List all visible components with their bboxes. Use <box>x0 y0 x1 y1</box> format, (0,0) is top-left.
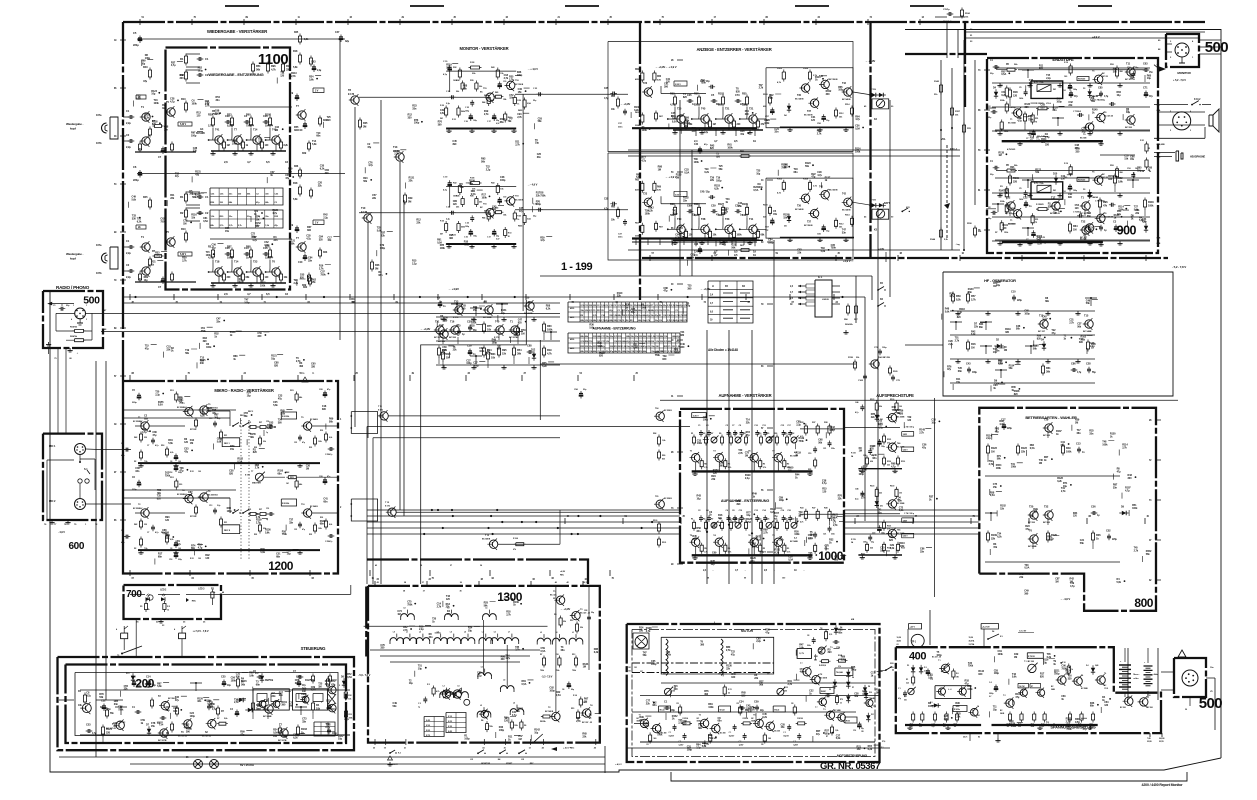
svg-text:1: 1 <box>86 305 87 307</box>
svg-text:C 1: C 1 <box>783 732 786 734</box>
svg-text:→ -4,9 V: → -4,9 V <box>1060 597 1070 601</box>
svg-text:100k: 100k <box>206 254 212 257</box>
svg-text:4,7µ: 4,7µ <box>306 238 311 241</box>
svg-text:47µ: 47µ <box>184 450 189 453</box>
svg-text:BC 558 B: BC 558 B <box>515 84 524 86</box>
svg-text:100p: 100p <box>492 341 498 344</box>
svg-text:VOLL: VOLL <box>1046 103 1052 105</box>
svg-text:L9: L9 <box>458 686 460 688</box>
svg-text:1: 1 <box>73 305 74 307</box>
svg-text:220µ: 220µ <box>1112 539 1118 541</box>
svg-text:47µ: 47µ <box>175 175 180 178</box>
svg-text:4,7µ: 4,7µ <box>155 444 158 447</box>
svg-text:750k: 750k <box>1061 667 1067 670</box>
svg-text:1M: 1M <box>583 666 586 669</box>
svg-text:2,7k: 2,7k <box>205 105 210 108</box>
svg-text:2200µ: 2200µ <box>989 693 993 695</box>
svg-text:R 43/22,4: R 43/22,4 <box>819 664 826 667</box>
svg-text:BC 327-25: BC 327-25 <box>1104 116 1114 118</box>
svg-text:4,7µ: 4,7µ <box>86 695 91 698</box>
svg-text:→: → <box>744 569 746 572</box>
svg-text:15k: 15k <box>265 256 270 260</box>
svg-text:L905 B: L905 B <box>822 299 829 301</box>
svg-text:624: 624 <box>870 546 873 549</box>
svg-text:2,7k: 2,7k <box>763 531 768 534</box>
svg-text:68n: 68n <box>968 291 973 294</box>
svg-text:330p: 330p <box>1119 230 1125 232</box>
svg-text:T 3 / BC 369: T 3 / BC 369 <box>1024 661 1034 663</box>
svg-text:C28: C28 <box>584 610 587 612</box>
svg-text:ANZEIGE - ENTZERRER - VERSTÄRK: ANZEIGE - ENTZERRER - VERSTÄRKER <box>696 47 771 52</box>
svg-text:4,7µ: 4,7µ <box>855 411 858 414</box>
svg-text:R45: R45 <box>495 91 498 94</box>
svg-text:100k: 100k <box>899 545 905 548</box>
svg-text:750k: 750k <box>968 665 974 668</box>
svg-text:2,2µ: 2,2µ <box>323 216 328 219</box>
svg-text:T23: T23 <box>643 192 648 195</box>
svg-text:10µ: 10µ <box>746 514 751 517</box>
svg-text:T 10: T 10 <box>1147 695 1151 697</box>
svg-text:68n: 68n <box>250 436 255 439</box>
svg-text:0,25: 0,25 <box>919 726 922 728</box>
svg-text:150µ: 150µ <box>881 446 885 448</box>
svg-text:0,5A: 0,5A <box>990 494 995 497</box>
svg-text:C30: C30 <box>503 197 506 199</box>
svg-text:68n: 68n <box>323 501 328 504</box>
svg-text:R16: R16 <box>971 342 976 346</box>
svg-text:C10: C10 <box>1011 290 1016 294</box>
svg-text:100k: 100k <box>694 161 700 164</box>
svg-text:33n: 33n <box>429 636 434 639</box>
svg-text:1000: 1000 <box>818 549 844 563</box>
svg-text:22µ: 22µ <box>496 236 499 238</box>
svg-text:47µ: 47µ <box>447 613 452 616</box>
svg-text:BC 558 B: BC 558 B <box>664 410 672 412</box>
svg-text:BC 548B: BC 548B <box>1083 330 1092 333</box>
svg-text:4,7µ: 4,7µ <box>822 482 827 485</box>
svg-text:15k: 15k <box>502 351 507 355</box>
svg-text:BC 558 B: BC 558 B <box>829 189 838 191</box>
svg-text:→ +4,9V: → +4,9V <box>420 327 430 331</box>
svg-text:R98: R98 <box>653 433 656 435</box>
svg-text:BC 548 B: BC 548 B <box>310 505 318 508</box>
svg-text:33: 33 <box>728 692 730 694</box>
svg-text:L9: L9 <box>393 632 395 634</box>
svg-text:100p: 100p <box>191 135 197 138</box>
svg-text:C19: C19 <box>266 508 269 510</box>
svg-text:C8: C8 <box>807 635 809 637</box>
svg-text:+ 4,9 V REC: + 4,9 V REC <box>563 747 575 750</box>
svg-text:R57: R57 <box>971 294 976 298</box>
svg-text:4,7µ: 4,7µ <box>898 697 901 700</box>
svg-text:R42: R42 <box>134 436 137 439</box>
svg-text:R124: R124 <box>106 727 112 731</box>
svg-text:C10: C10 <box>298 129 303 132</box>
svg-text:2,7k: 2,7k <box>208 124 213 128</box>
svg-text:2,7k: 2,7k <box>517 116 522 119</box>
svg-text:8,2k: 8,2k <box>227 124 232 128</box>
svg-text:R55: R55 <box>742 92 747 96</box>
svg-text:R143: R143 <box>934 80 940 83</box>
svg-text:R15: R15 <box>571 708 574 710</box>
svg-text:R9/750k: R9/750k <box>265 680 274 682</box>
svg-text:5,6k: 5,6k <box>168 442 173 445</box>
svg-text:100p: 100p <box>808 537 814 540</box>
svg-text:107a: 107a <box>96 243 102 247</box>
svg-text:C88: C88 <box>527 344 532 348</box>
svg-text:68n: 68n <box>500 121 505 124</box>
svg-text:R2: R2 <box>134 548 136 550</box>
svg-text:2,2µ: 2,2µ <box>412 262 417 265</box>
svg-text:0,5A: 0,5A <box>788 559 793 562</box>
svg-text:750k: 750k <box>145 686 151 689</box>
svg-text:R 50: R 50 <box>517 216 521 218</box>
svg-text:47µ: 47µ <box>756 538 761 541</box>
svg-text:+4,9V: +4,9V <box>560 570 566 573</box>
svg-text:R7: R7 <box>540 654 542 656</box>
svg-text:T23: T23 <box>253 260 258 264</box>
svg-text:W 4,32: W 4,32 <box>774 709 779 712</box>
svg-text:10µ: 10µ <box>338 738 343 741</box>
svg-text:1k: 1k <box>1071 669 1073 671</box>
svg-text:0,5A: 0,5A <box>471 193 476 196</box>
svg-text:22µ: 22µ <box>871 541 874 543</box>
svg-text:68n: 68n <box>561 649 566 652</box>
svg-text:100p: 100p <box>859 473 865 476</box>
svg-text:T29: T29 <box>1044 418 1049 422</box>
svg-text:5,6k: 5,6k <box>890 547 895 550</box>
svg-text:10µ: 10µ <box>535 142 540 145</box>
svg-text:BC 548B: BC 548B <box>263 715 272 718</box>
svg-text:68n: 68n <box>1077 432 1082 435</box>
svg-text:33n: 33n <box>273 239 278 242</box>
svg-text:R3: R3 <box>703 433 705 435</box>
svg-text:100p: 100p <box>1054 673 1060 676</box>
svg-text:2,7k: 2,7k <box>1069 322 1074 325</box>
svg-text:2,2µ: 2,2µ <box>948 343 953 346</box>
svg-text:68n: 68n <box>794 171 799 174</box>
svg-text:R455: R455 <box>518 225 522 228</box>
svg-text:R125: R125 <box>887 439 891 441</box>
svg-text:6,2k: 6,2k <box>714 188 719 191</box>
svg-text:33n: 33n <box>216 99 221 102</box>
svg-text:100p: 100p <box>851 669 857 672</box>
svg-text:0,5A: 0,5A <box>273 732 278 735</box>
svg-text:BC 548B: BC 548B <box>790 540 798 543</box>
svg-text:100: 100 <box>198 558 201 560</box>
svg-text:0,5A: 0,5A <box>1075 721 1080 724</box>
svg-text:C 1: C 1 <box>729 732 732 734</box>
svg-text:4,75/1625: 4,75/1625 <box>1007 148 1016 151</box>
svg-text:5,6k: 5,6k <box>217 440 222 443</box>
svg-text:330: 330 <box>144 437 147 439</box>
svg-text:1M: 1M <box>1055 581 1058 584</box>
svg-text:R120: R120 <box>1051 533 1057 537</box>
svg-text:307-25: 307-25 <box>1102 76 1109 78</box>
svg-text:10µ: 10µ <box>468 629 473 632</box>
svg-text:LED 2: LED 2 <box>160 590 167 592</box>
svg-text:R5: R5 <box>787 464 789 466</box>
svg-text:BC 360: BC 360 <box>1147 707 1153 709</box>
svg-text:2,7k: 2,7k <box>515 144 520 147</box>
svg-text:T 2: T 2 <box>1003 695 1006 697</box>
svg-text:68n: 68n <box>872 457 877 460</box>
svg-text:C21: C21 <box>823 533 826 535</box>
svg-text:R13: R13 <box>349 714 352 716</box>
svg-text:BC 558 B: BC 558 B <box>515 200 524 202</box>
svg-text:100k: 100k <box>260 284 266 287</box>
svg-text:560: 560 <box>768 738 771 740</box>
svg-text:BC 557B: BC 557B <box>278 740 287 742</box>
svg-text:5,6k: 5,6k <box>293 66 298 69</box>
svg-text:4,7µ: 4,7µ <box>800 671 805 674</box>
svg-text:R9: R9 <box>719 433 721 435</box>
svg-text:R 119: R 119 <box>851 539 856 541</box>
svg-text:5,6k: 5,6k <box>1117 581 1122 584</box>
svg-text:T10: T10 <box>677 217 682 221</box>
svg-text:R12: R12 <box>348 695 351 697</box>
svg-text:R17/10k: R17/10k <box>190 429 196 431</box>
svg-text:47µ: 47µ <box>1083 728 1088 731</box>
svg-text:BC548B: BC548B <box>196 132 205 135</box>
svg-text:68n: 68n <box>1045 300 1050 303</box>
svg-text:120: 120 <box>1013 93 1018 97</box>
svg-text:R 50: R 50 <box>517 100 521 102</box>
svg-text:100k: 100k <box>855 150 861 153</box>
svg-text:R26: R26 <box>1096 533 1101 537</box>
svg-text:BC 548 B: BC 548 B <box>842 208 851 211</box>
svg-text:BC 307 - 25: BC 307 - 25 <box>582 722 593 724</box>
svg-text:R123: R123 <box>870 485 874 487</box>
svg-text:5,6k: 5,6k <box>132 199 137 202</box>
svg-text:0,5A: 0,5A <box>1090 99 1095 102</box>
svg-text:100k: 100k <box>666 654 672 657</box>
svg-text:100k: 100k <box>703 419 709 422</box>
svg-text:R115: R115 <box>241 679 247 683</box>
svg-text:47µ: 47µ <box>212 412 217 415</box>
svg-text:C21: C21 <box>823 448 826 450</box>
svg-text:C19: C19 <box>808 453 811 455</box>
svg-text:39k: 39k <box>517 351 522 355</box>
svg-text:6,2k: 6,2k <box>200 414 205 417</box>
svg-text:1,2k: 1,2k <box>304 38 309 41</box>
svg-text:5,6k: 5,6k <box>273 404 278 407</box>
svg-text:10k: 10k <box>487 327 492 331</box>
svg-text:R 5/124: R 5/124 <box>797 717 803 720</box>
svg-text:4,7µ: 4,7µ <box>891 465 896 468</box>
svg-text:E 176: E 176 <box>348 93 355 96</box>
svg-text:L8: L8 <box>404 608 406 610</box>
svg-text:R30: R30 <box>320 430 323 432</box>
svg-text:R96: R96 <box>271 64 276 68</box>
svg-text:R2: R2 <box>134 461 136 463</box>
svg-text:BC 558B: BC 558B <box>1081 688 1088 690</box>
svg-text:⇒ 7,3 V - 7,8 V: ⇒ 7,3 V - 7,8 V <box>193 629 209 633</box>
svg-text:4,7: 4,7 <box>714 139 718 143</box>
svg-text:L5: L5 <box>513 703 515 705</box>
svg-text:T16: T16 <box>450 320 455 324</box>
svg-text:0,5A: 0,5A <box>753 189 758 192</box>
svg-text:1µ: 1µ <box>266 519 268 521</box>
svg-text:C63: C63 <box>1143 62 1148 66</box>
svg-text:C10: C10 <box>853 730 856 732</box>
svg-text:6,2k: 6,2k <box>762 716 767 719</box>
svg-text:kopf: kopf <box>70 257 76 261</box>
svg-text:2,7k: 2,7k <box>779 539 784 542</box>
svg-text:2,7k: 2,7k <box>788 683 793 686</box>
svg-text:750k: 750k <box>282 533 288 536</box>
svg-text:C22: C22 <box>326 723 331 727</box>
svg-text:BC 556B: BC 556B <box>1008 123 1016 125</box>
svg-text:1300: 1300 <box>497 590 523 604</box>
svg-text:100k: 100k <box>1066 449 1072 453</box>
svg-text:4,7k: 4,7k <box>547 351 552 355</box>
svg-text:R18: R18 <box>161 445 164 447</box>
svg-text:R102: R102 <box>777 178 783 180</box>
svg-text:T11: T11 <box>1126 62 1131 66</box>
svg-text:VOL: VOL <box>941 138 946 141</box>
svg-text:BETRIEBSARTEN - WAHLER: BETRIEBSARTEN - WAHLER <box>1025 415 1077 420</box>
svg-text:600: 600 <box>69 541 85 552</box>
svg-text:BC 548 B: BC 548 B <box>545 710 554 713</box>
svg-text:33n: 33n <box>308 259 313 262</box>
svg-text:C 2: C 2 <box>418 703 421 705</box>
svg-text:10µ: 10µ <box>996 284 1001 287</box>
svg-text:100k: 100k <box>440 247 446 250</box>
svg-text:C25: C25 <box>221 675 226 679</box>
svg-text:L9: L9 <box>503 680 505 682</box>
svg-text:R87: R87 <box>227 245 232 249</box>
svg-text:D11: D11 <box>880 505 883 507</box>
svg-text:T15: T15 <box>1039 314 1044 318</box>
svg-text:6,2k: 6,2k <box>594 651 599 654</box>
svg-text:5,6k: 5,6k <box>1134 208 1139 211</box>
svg-text:33n: 33n <box>1113 487 1118 490</box>
svg-text:→ +4,9V: → +4,9V <box>448 287 459 291</box>
svg-text:47µ: 47µ <box>143 79 148 83</box>
svg-text:44,93: 44,93 <box>897 639 901 642</box>
svg-text:33n: 33n <box>683 200 688 203</box>
svg-text:5,6k: 5,6k <box>312 143 317 146</box>
svg-text:4,7k: 4,7k <box>271 67 276 71</box>
svg-text:BC 548 B: BC 548 B <box>842 98 851 101</box>
svg-text:39k: 39k <box>718 103 723 107</box>
svg-text:4,7µ: 4,7µ <box>855 497 858 500</box>
svg-text:100p: 100p <box>825 733 831 736</box>
svg-text:100k: 100k <box>547 327 553 331</box>
svg-text:1M: 1M <box>1073 227 1076 231</box>
svg-text:6,2k: 6,2k <box>320 167 325 170</box>
svg-text:C71: C71 <box>1143 86 1148 90</box>
svg-text:D11: D11 <box>871 714 874 716</box>
svg-text:REC: REC <box>560 574 565 576</box>
svg-text:2,7k: 2,7k <box>182 259 187 262</box>
svg-text:R45: R45 <box>143 195 148 199</box>
svg-text:47µ: 47µ <box>995 431 1000 434</box>
svg-text:MOTORSTEUERUNG: MOTORSTEUERUNG <box>837 754 868 758</box>
svg-text:500: 500 <box>904 699 907 701</box>
svg-text:100k: 100k <box>1011 466 1017 469</box>
svg-text:47k: 47k <box>1103 203 1108 207</box>
svg-text:C 25/4,7µ: C 25/4,7µ <box>325 540 332 543</box>
svg-text:33n: 33n <box>412 108 417 111</box>
svg-text:2,7k: 2,7k <box>646 630 651 633</box>
svg-text:LED 3: LED 3 <box>198 589 205 591</box>
svg-text:100p: 100p <box>779 499 785 502</box>
svg-text:68n: 68n <box>838 631 843 634</box>
svg-text:R96: R96 <box>1103 200 1108 204</box>
svg-text:10k: 10k <box>491 355 496 359</box>
svg-text:8,2k: 8,2k <box>694 213 699 217</box>
svg-text:R 26/100k: R 26/100k <box>282 416 289 418</box>
svg-text:C53: C53 <box>86 723 91 727</box>
svg-text:BC 558 B: BC 558 B <box>664 498 672 500</box>
svg-text:68n: 68n <box>979 326 984 329</box>
svg-text:100k: 100k <box>996 467 1002 470</box>
svg-text:1M: 1M <box>306 468 309 471</box>
svg-text:2,7k: 2,7k <box>919 431 924 434</box>
svg-text:C23: C23 <box>294 529 297 531</box>
svg-text:R 15/625: R 15/625 <box>1036 204 1044 206</box>
svg-text:BC 548 B: BC 548 B <box>310 418 318 421</box>
svg-text:1M: 1M <box>275 129 278 132</box>
svg-text:T35: T35 <box>677 107 682 111</box>
svg-text:33n: 33n <box>302 721 307 724</box>
svg-text:AUFNAHME - ENTZERRUNG: AUFNAHME - ENTZERRUNG <box>593 327 637 331</box>
svg-text:R TC / 7,8k: R TC / 7,8k <box>1034 183 1044 185</box>
svg-text:22,3B: 22,3B <box>1147 741 1152 743</box>
svg-text:R7: R7 <box>711 433 713 435</box>
svg-text:8,2k: 8,2k <box>329 437 332 439</box>
svg-text:2,7k: 2,7k <box>504 77 509 80</box>
svg-text:100p: 100p <box>936 654 942 657</box>
svg-text:0,5A: 0,5A <box>203 220 208 223</box>
svg-text:T18: T18 <box>215 260 220 264</box>
svg-text:220: 220 <box>106 730 111 734</box>
svg-text:2,7k: 2,7k <box>759 87 764 90</box>
svg-text:1M: 1M <box>713 123 716 126</box>
svg-text:100p: 100p <box>536 203 542 206</box>
svg-text:C68: C68 <box>863 541 866 543</box>
svg-text:C44: C44 <box>131 675 136 679</box>
svg-text:5,6k: 5,6k <box>1012 676 1017 679</box>
svg-text:5,6k: 5,6k <box>249 675 254 678</box>
svg-text:2,7k: 2,7k <box>1061 490 1066 493</box>
svg-text:BC 557B: BC 557B <box>158 740 167 742</box>
svg-text:100p: 100p <box>500 179 506 182</box>
svg-text:2,2µ: 2,2µ <box>126 275 131 279</box>
svg-text:D10: D10 <box>869 692 872 694</box>
svg-text:T 7: T 7 <box>815 707 817 709</box>
svg-text:C86: C86 <box>1071 362 1076 366</box>
svg-text:47µ: 47µ <box>922 446 927 449</box>
svg-text:BC 558 B: BC 558 B <box>829 79 838 81</box>
svg-text:T44 / BF 299: T44 / BF 299 <box>878 356 891 359</box>
svg-text:1M: 1M <box>227 144 230 147</box>
svg-text:R5: R5 <box>704 464 706 466</box>
svg-text:R12: R12 <box>570 620 573 622</box>
svg-text:K 10-2: K 10-2 <box>1194 99 1201 101</box>
svg-text:R5: R5 <box>763 548 765 550</box>
svg-text:T20: T20 <box>1029 505 1034 509</box>
svg-text:10µ: 10µ <box>247 394 252 397</box>
svg-text:BC 550: BC 550 <box>449 337 457 339</box>
svg-text:L2: L2 <box>480 705 482 707</box>
svg-text:C18: C18 <box>169 559 172 561</box>
svg-text:10µ: 10µ <box>165 537 170 540</box>
svg-text:4,7µ: 4,7µ <box>368 164 373 167</box>
svg-text:C17: C17 <box>1001 418 1006 422</box>
